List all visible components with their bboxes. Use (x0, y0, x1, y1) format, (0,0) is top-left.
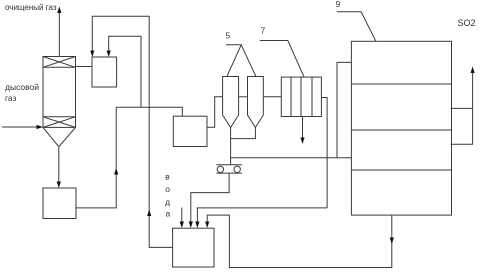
wire recycle path A (from bottom tank to box U2) (92, 16, 172, 247)
wire feeder to tank E2 arrow2 (191, 173, 229, 222)
scrubber column K1 (43, 57, 76, 128)
svg-text:дысовой: дысовой (5, 82, 39, 92)
wire scrubber cone to tank E1 (58, 147, 60, 182)
flow arrow down on absorber drain (390, 238, 394, 245)
wire box U3 to cyclone 5 (207, 97, 223, 128)
scrubber cone (43, 127, 76, 146)
wire recycle path B (from header to box U2) (109, 36, 141, 107)
svg-text:SO2: SO2 (458, 18, 476, 28)
svg-text:очищеный газ: очищеный газ (5, 3, 57, 12)
wire absorber 9 bottom to tank E2 arrow4 (207, 215, 392, 267)
wire exchanger 7 down arrow (302, 117, 304, 139)
svg-text:5: 5 (226, 31, 231, 41)
wire exchanger 7 to bottom header (321, 98, 327, 208)
tank E2 (bottom) (173, 228, 214, 267)
svg-text:в: в (165, 172, 170, 182)
wire cyclone dust collector (231, 128, 256, 139)
box U3 (middle box) (173, 116, 207, 146)
flow arrow up on riser x116 (114, 168, 118, 175)
wire header to box U3 (116, 107, 182, 116)
wire tank E1 to header (76, 107, 116, 208)
absorber 9 (big box) (351, 41, 451, 215)
svg-text:7: 7 (261, 26, 266, 36)
wire collector drop to feeder (230, 139, 232, 165)
svg-text:а: а (166, 208, 171, 218)
SO2 outlet box on absorber 9 (451, 108, 473, 144)
wire cyclone C1 to C2 (239, 96, 248, 98)
svg-text:д: д (165, 197, 170, 207)
cyclone C2 (248, 77, 264, 97)
flow arrow up on riser x149 (147, 210, 151, 217)
wire clean-gas outlet arrow (58, 11, 60, 57)
exchanger 7 (striped box) (281, 77, 321, 116)
wire scrubber to box U2 (76, 66, 93, 68)
wire cyclone C2 to exchanger 7 (263, 96, 281, 98)
cyclone C1 (223, 77, 239, 97)
tank E1 (left) (43, 188, 76, 219)
wire water inlet arrow1 (181, 208, 183, 223)
rotary feeder (rollers) (216, 164, 242, 166)
svg-text:газ: газ (5, 93, 17, 103)
packing X bottom band (43, 117, 76, 128)
wire bottom header to tank E2 arrow3 (197, 208, 327, 222)
wire absorber 9 upper-left tap (337, 62, 351, 157)
wire flue-gas inlet arrow (2, 126, 37, 128)
svg-text:о: о (165, 184, 170, 194)
wire collector line to absorber 9 (231, 157, 352, 159)
svg-text:9: 9 (336, 0, 341, 9)
box U2 (top recycle box) (92, 57, 117, 87)
wire SO2 outlet arrow (472, 72, 474, 108)
packing X top band (43, 57, 76, 68)
